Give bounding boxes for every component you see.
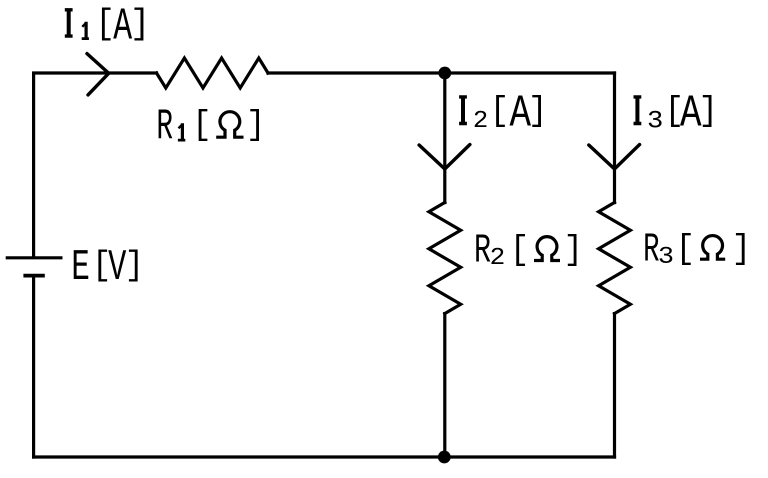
svg-text:[: [ xyxy=(95,5,114,44)
wire: left vertical upper + top-left corner + top wire left segment xyxy=(34,73,157,256)
svg-text:R: R xyxy=(474,228,491,275)
svg-text:3: 3 xyxy=(647,106,663,134)
node: bottom junction dot xyxy=(438,451,451,464)
resistor R3 (vertical zigzag) xyxy=(599,203,631,314)
svg-text:3: 3 xyxy=(658,243,674,270)
svg-text:E: E xyxy=(71,244,90,292)
wire: bottom wire xyxy=(34,455,615,458)
svg-text:[: [ xyxy=(192,106,212,145)
svg-text:]: ] xyxy=(125,246,145,285)
label I3[A] xyxy=(634,95,642,125)
wire: right vertical upper segment xyxy=(613,73,616,203)
svg-text:]: ] xyxy=(246,106,266,145)
label I2[A] xyxy=(459,95,467,125)
svg-text:]: ] xyxy=(732,230,752,269)
svg-text:2: 2 xyxy=(473,107,488,135)
wire: middle vertical upper segment xyxy=(443,73,446,203)
svg-text:]: ] xyxy=(564,231,584,270)
wire: middle vertical lower segment xyxy=(443,314,446,457)
label I1[A] xyxy=(65,8,73,38)
svg-text:[: [ xyxy=(675,230,695,269)
svg-text:R: R xyxy=(156,103,173,152)
resistor R1 (horizontal zigzag) xyxy=(157,58,269,88)
arrow: current I2 direction (down) xyxy=(419,145,470,170)
battery E negative plate (short) xyxy=(23,274,44,278)
svg-text:]: ] xyxy=(699,92,719,131)
resistor R2 (vertical zigzag) xyxy=(429,203,461,314)
battery E positive plate (long) xyxy=(6,256,63,259)
arrow: current I1 direction (right) xyxy=(87,54,109,95)
wire: top wire right segment to top-right corner xyxy=(268,71,615,74)
svg-text:]: ] xyxy=(130,5,150,45)
svg-text:R: R xyxy=(643,228,659,274)
svg-text:2: 2 xyxy=(490,244,506,272)
arrow: current I3 direction (down) xyxy=(589,145,640,170)
wire: left vertical lower segment xyxy=(32,276,35,457)
node: top junction dot xyxy=(438,67,451,80)
svg-text:[: [ xyxy=(490,92,510,131)
svg-text:]: ] xyxy=(528,92,548,131)
svg-text:[: [ xyxy=(510,231,530,270)
wire: right vertical lower segment xyxy=(613,314,616,457)
svg-text:V: V xyxy=(108,244,127,293)
